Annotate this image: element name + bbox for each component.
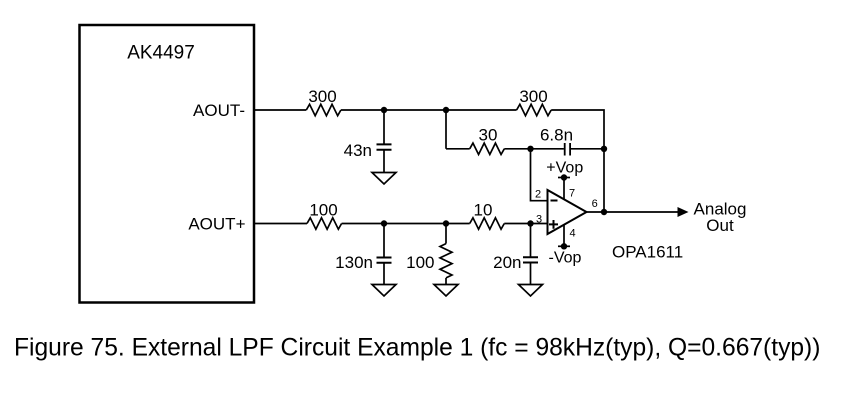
wire node B to R3 bbox=[446, 148, 470, 150]
ground below R6 bbox=[434, 285, 458, 297]
svg-text:Figure 75. External LPF Circui: Figure 75. External LPF Circuit Example … bbox=[14, 335, 820, 362]
wire -Vop supply bbox=[563, 225, 565, 247]
svg-text:20n: 20n bbox=[493, 253, 521, 272]
resistor R3 30 bbox=[470, 143, 505, 154]
node D junction dot bbox=[601, 146, 607, 152]
wire R5 to pin3 through node G bbox=[504, 223, 547, 225]
svg-text:AOUT-: AOUT- bbox=[193, 101, 245, 120]
output node H junction dot bbox=[601, 209, 607, 215]
op-amp minus input mark bbox=[551, 200, 558, 202]
svg-text:7: 7 bbox=[569, 188, 575, 200]
node F junction dot bbox=[443, 220, 449, 226]
capacitor C2 6.8n bbox=[565, 143, 570, 156]
node E junction dot bbox=[381, 220, 387, 226]
svg-text:AK4497: AK4497 bbox=[127, 43, 195, 64]
node C junction dot bbox=[527, 146, 533, 152]
wire C2 to node D bbox=[570, 148, 604, 150]
output arrowhead bbox=[678, 207, 689, 217]
svg-text:10: 10 bbox=[474, 200, 493, 219]
+Vop terminal bar bbox=[558, 177, 570, 179]
svg-text:100: 100 bbox=[406, 253, 434, 272]
svg-text:AOUT+: AOUT+ bbox=[188, 215, 245, 234]
wire node B down bbox=[445, 110, 447, 149]
wire output to arrow bbox=[587, 211, 679, 213]
svg-text:100: 100 bbox=[309, 200, 337, 219]
svg-text:+Vop: +Vop bbox=[546, 160, 583, 177]
resistor R1 300 bbox=[306, 104, 341, 115]
svg-text:4: 4 bbox=[569, 227, 575, 239]
op-amp U1 triangle bbox=[548, 190, 587, 234]
capacitor C1 43n bbox=[377, 144, 392, 149]
op-amp plus input mark bbox=[549, 220, 558, 229]
capacitor C3 130n bbox=[377, 258, 392, 263]
svg-text:OPA1611: OPA1611 bbox=[612, 243, 683, 262]
wire C3 to ground bbox=[383, 263, 385, 285]
resistor R6 100 vertical bbox=[440, 244, 452, 278]
wire node E to node F to R5 bbox=[342, 223, 470, 225]
wire node C down to pin2 bbox=[531, 149, 548, 201]
svg-text:43n: 43n bbox=[344, 141, 372, 160]
resistor R2 300 feedback bbox=[517, 104, 552, 115]
wire node A down to C1 bbox=[383, 110, 385, 144]
wire node A to node B bbox=[341, 109, 517, 111]
-Vop terminal bar bbox=[558, 245, 570, 247]
+Vop terminal dot bbox=[561, 174, 567, 180]
node G junction dot bbox=[527, 220, 533, 226]
svg-text:6: 6 bbox=[592, 198, 598, 210]
node B junction dot bbox=[443, 107, 449, 113]
ground below C3 bbox=[372, 285, 396, 297]
wire AOUT+ from box to R4 bbox=[255, 223, 307, 225]
wire node F down to R6 bbox=[445, 224, 447, 244]
wire R3 to C2 through node C bbox=[504, 148, 564, 150]
resistor R4 100 bbox=[307, 218, 342, 229]
wire C1 to ground bbox=[383, 150, 385, 173]
svg-text:30: 30 bbox=[479, 126, 498, 145]
capacitor C4 20n bbox=[523, 257, 538, 262]
svg-text:300: 300 bbox=[308, 87, 336, 106]
ground below C1 bbox=[372, 173, 396, 185]
svg-text:300: 300 bbox=[519, 87, 547, 106]
IC box AK4497 bbox=[80, 25, 255, 303]
ground below C4 bbox=[519, 285, 543, 297]
wire R6 to ground bbox=[445, 278, 447, 285]
svg-text:130n: 130n bbox=[335, 253, 373, 272]
svg-text:2: 2 bbox=[535, 189, 541, 201]
wire +Vop supply bbox=[563, 178, 565, 200]
-Vop terminal dot bbox=[561, 243, 567, 249]
svg-text:-Vop: -Vop bbox=[549, 250, 582, 267]
node A junction dot bbox=[381, 107, 387, 113]
wire C4 to ground bbox=[530, 263, 532, 285]
wire node E down to C3 bbox=[383, 224, 385, 258]
wire node G down to C4 bbox=[530, 224, 532, 258]
wire AOUT- from box to R1 bbox=[255, 109, 306, 111]
wire feedback top right corner down to output bbox=[551, 110, 604, 212]
resistor R5 10 bbox=[470, 218, 505, 229]
svg-text:6.8n: 6.8n bbox=[540, 126, 573, 145]
svg-text:Out: Out bbox=[706, 216, 734, 235]
svg-text:3: 3 bbox=[536, 214, 542, 226]
